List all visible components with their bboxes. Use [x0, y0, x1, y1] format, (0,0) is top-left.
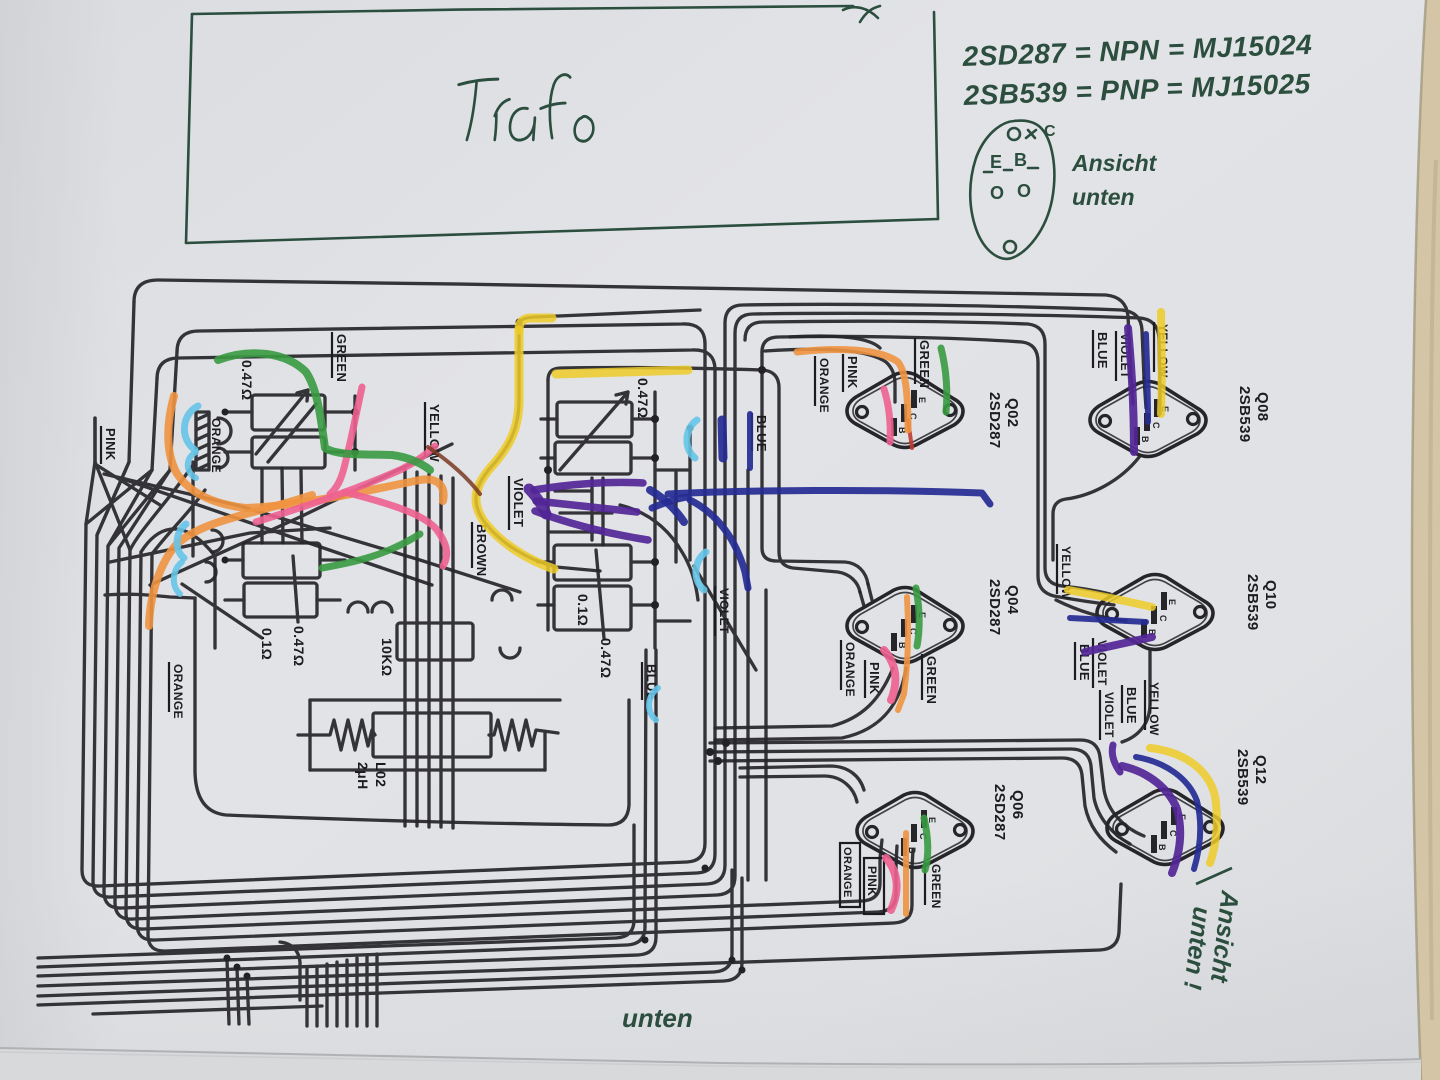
svg-text:C: C [1044, 123, 1056, 140]
wire Q10 third feed [1056, 600, 1126, 621]
svg-text:0.1Ω: 0.1Ω [259, 628, 275, 660]
svg-text:PINK: PINK [845, 356, 860, 389]
svg-text:unten: unten [1072, 184, 1135, 210]
resistor box L4 [244, 583, 317, 617]
svg-text:0.47Ω: 0.47Ω [598, 638, 614, 678]
frame F2 composite: top edge, central vertical, bottom row, left bundle line [82, 324, 705, 886]
Trafo box left edge [186, 14, 192, 243]
Trafo box top edge [192, 6, 853, 14]
marker navy descending [690, 500, 748, 588]
U-loop bumps [348, 602, 368, 612]
wire composite line A to Q08 [104, 304, 1144, 908]
short verticals from rows x227-247 [227, 960, 229, 1024]
Trafo box right edge [934, 12, 938, 219]
resistor box L2 [252, 437, 325, 468]
marker brown diagonal [428, 447, 480, 494]
svg-text:ORANGE: ORANGE [171, 664, 185, 719]
fan diagonals [130, 465, 193, 550]
marker pink PB [345, 492, 447, 566]
junction dots [222, 319, 767, 980]
marker yellow Q10 [1068, 590, 1152, 607]
trim line right bottom [596, 550, 604, 638]
inductor L02 box [373, 713, 491, 757]
wire from PINK label [95, 418, 160, 505]
svg-text:0.47Ω: 0.47Ω [239, 360, 255, 400]
dense verticals bottom center-left [305, 968, 308, 1026]
bottom paper edge [0, 1048, 1421, 1080]
hatched terminal strip [196, 412, 209, 470]
TO-3 sketch top hole [1008, 128, 1020, 140]
TO-3 sketch E B dashes [984, 168, 1038, 172]
marker pink PC [330, 387, 362, 494]
svg-text:VIOLET: VIOLET [1102, 692, 1116, 738]
svg-text:ORANGE: ORANGE [841, 847, 853, 898]
wire horizontal stubs central [555, 489, 592, 492]
svg-text:2SB539: 2SB539 [1234, 749, 1251, 806]
wire Q06 pin verticals [880, 840, 882, 858]
wire Q08 bottom to Q10 link [1053, 456, 1140, 560]
Trafo box hook arrow [843, 6, 880, 22]
transistor Q04 [847, 588, 963, 663]
component boxes and cluster wiring [196, 336, 1160, 868]
marker green long [218, 353, 430, 470]
hand-drawn green pen annotations [186, 6, 1054, 259]
frame F1 outer border top edge [134, 280, 1131, 376]
frame F2 left edge [170, 352, 177, 470]
handwriting equations [961, 29, 1313, 111]
connector bumps printed arcs [218, 418, 231, 444]
svg-text:Q12: Q12 [1252, 755, 1269, 785]
wire top of zigzags [310, 698, 560, 701]
verticals through 10K box and L02 [403, 470, 406, 826]
wire Q02 feed f2 [790, 336, 880, 348]
svg-text:O: O [990, 183, 1004, 203]
wire stub y621 [655, 619, 690, 622]
wire verticals central cluster [590, 478, 593, 540]
marker navy vertical nub [722, 420, 723, 458]
wire Q02 feed f1 [765, 349, 895, 402]
box stubs right cluster [541, 417, 557, 420]
marker yellow S-curve [476, 330, 554, 569]
TO-3 sketch x mark [1026, 130, 1036, 138]
svg-text:2SD287: 2SD287 [986, 579, 1003, 636]
svg-text:unten: unten [622, 1003, 693, 1033]
svg-text:B: B [1014, 150, 1027, 170]
TO-3 sketch pin letters [990, 123, 1056, 203]
resistor box R4 [554, 586, 631, 630]
wire Q04 bottom wires [715, 668, 893, 728]
wire 3-line bundle to Q12 [710, 740, 1144, 836]
printed wire color labels (rotated) [101, 322, 1279, 914]
wire vertical x193 upper [191, 462, 194, 556]
wire central vertical x548 lower [546, 380, 549, 630]
wire Q10 bottom down [1122, 650, 1150, 742]
table edge (beige strip at right) [1412, 0, 1440, 1080]
marker violet V2 [536, 501, 637, 512]
marker pink Q02 [884, 389, 890, 442]
transistor Q08 [1090, 382, 1206, 457]
svg-text:GREEN: GREEN [917, 340, 932, 388]
marker violet hook Q12 [1112, 745, 1120, 772]
wire Q06 feeds [740, 766, 864, 790]
marker green Q06 [924, 818, 928, 870]
boxed label ORANGE Q06 [840, 843, 884, 914]
handwriting Trafo [459, 75, 594, 142]
svg-text:0.47Ω: 0.47Ω [635, 378, 651, 418]
marker violet Q10 [1085, 637, 1152, 652]
svg-text:Q02: Q02 [1004, 398, 1021, 428]
svg-text:GREEN: GREEN [929, 864, 943, 909]
svg-text:GREEN: GREEN [924, 656, 939, 704]
marker navy Q08 [1146, 334, 1148, 422]
wire vertical x656 joining row B3 [38, 650, 656, 976]
transistor Q10 [1097, 575, 1213, 650]
svg-text:Q06: Q06 [1009, 790, 1026, 820]
marker orange Q04 [898, 597, 908, 710]
wire composite line B to Q08 (yellow wire) [115, 313, 1160, 919]
svg-text:PINK: PINK [867, 662, 882, 695]
svg-text:Q10: Q10 [1262, 580, 1279, 610]
svg-text:PINK: PINK [103, 428, 118, 461]
svg-text:2SD287: 2SD287 [991, 784, 1008, 841]
marker navy Q12 [1136, 757, 1200, 869]
colored marker strokes [149, 312, 1217, 914]
row R7 to Q06 [148, 554, 912, 951]
svg-text:VIOLET: VIOLET [717, 588, 731, 634]
marker violet V1 [534, 482, 643, 490]
resistor box R2 [555, 442, 631, 474]
svg-text:Q04: Q04 [1004, 585, 1021, 615]
svg-text:BROWN: BROWN [474, 524, 489, 577]
wire vertical x655 [653, 392, 656, 648]
marker pink Q06 [886, 858, 897, 910]
wire diagonal near VIOLET label [694, 566, 756, 670]
transistor Q02 [847, 373, 963, 448]
row R5 to Q06 [126, 550, 880, 929]
marker yellow horizontal frame [556, 370, 688, 374]
zigzag resistor RZ2 [489, 720, 558, 750]
svg-text:2SB539: 2SB539 [1236, 386, 1253, 443]
marker green Q02 [941, 348, 947, 412]
svg-text:BLUE: BLUE [754, 415, 769, 452]
marker dark red Q02 [908, 420, 912, 448]
crossing diagonals between clusters [104, 474, 520, 592]
row R6 to Q06 [137, 552, 896, 940]
marker yellow Q12 [1150, 748, 1217, 863]
marker pink Q04 [884, 650, 895, 700]
marker navy knot [650, 490, 684, 522]
marker violet V3 [535, 511, 648, 540]
transistor Q12 [1107, 790, 1223, 865]
wire yellow-marked corner [476, 310, 700, 571]
resistor box L1 [252, 395, 325, 430]
Trafo box bottom edge [186, 219, 938, 243]
frame F3 left edge [152, 379, 157, 470]
marker cyan arcs right [687, 420, 697, 458]
svg-text:Ansicht: Ansicht [1071, 150, 1158, 176]
handwriting Ansicht unten! (bottom right, rotated) [1178, 888, 1244, 991]
marker orange O2 [149, 495, 312, 626]
wire vertical x646 joining row B2 [38, 650, 646, 967]
svg-text:PINK: PINK [865, 866, 879, 896]
wire bottom of L02 [310, 768, 545, 771]
zigzag resistor RZ1 [298, 720, 375, 750]
wire horizontal into strip [105, 594, 195, 598]
trim arrow right top [560, 392, 628, 470]
svg-text:10KΩ: 10KΩ [379, 638, 395, 677]
marker navy BLUE wire [747, 414, 753, 468]
svg-text:ORANGE: ORANGE [817, 358, 831, 413]
marker green lower [322, 534, 420, 568]
wire line C down to Q10 [745, 321, 1110, 594]
svg-text:E: E [990, 152, 1002, 172]
resistor box R3 [554, 545, 631, 580]
svg-text:GREEN: GREEN [334, 334, 349, 382]
marker orange Q02 [797, 349, 908, 430]
marker yellow corner top [519, 318, 552, 330]
svg-text:2SD287: 2SD287 [986, 392, 1003, 449]
pen line to Ansicht note [1196, 868, 1232, 884]
TO-3 sketch bottom hole [1004, 241, 1016, 253]
svg-text:VIOLET: VIOLET [511, 478, 526, 527]
marker green Q04 [916, 588, 919, 646]
marker yellow Q08 [1157, 312, 1166, 414]
resistor box L3 [243, 543, 320, 578]
svg-text:BLUE: BLUE [1095, 332, 1110, 369]
svg-text:2μH: 2μH [355, 762, 371, 790]
corner curves into dense verticals [280, 942, 300, 1000]
marker navy Q10 [1070, 618, 1146, 622]
wire vertical channel x215 [213, 556, 216, 648]
TO-3 hand sketch outline [970, 121, 1054, 259]
marker navy long horizontal [668, 490, 990, 504]
frame F1 left edge [129, 302, 134, 462]
marker cyan arcs left [184, 406, 198, 450]
wire verticals between left box pairs [260, 470, 263, 543]
svg-text:YELLOW: YELLOW [1147, 682, 1161, 736]
marker orange Q06 [903, 833, 909, 914]
marker violet Q08 [1128, 328, 1134, 452]
handwriting Ansicht unten (beside sketch) [1071, 150, 1158, 210]
svg-text:L02: L02 [373, 762, 389, 787]
svg-text:ORANGE: ORANGE [209, 418, 223, 473]
wire vertical channel x195 [195, 598, 629, 825]
svg-text:0.47Ω: 0.47Ω [291, 626, 307, 666]
marker violet knot [529, 489, 546, 514]
marker violet Q12 [1122, 766, 1180, 873]
bottom bundle rows B1-B7 [38, 825, 634, 958]
box stubs left cluster [225, 410, 252, 413]
printed schematic: black ink [38, 280, 1160, 1026]
wire S-curve at blue knot [620, 505, 698, 600]
marker pink PA [256, 446, 435, 522]
svg-text:0.1Ω: 0.1Ω [575, 594, 591, 626]
svg-text:ORANGE: ORANGE [843, 642, 857, 697]
svg-text:2SB539: 2SB539 [1244, 574, 1261, 631]
transistor Q06 [857, 793, 973, 868]
wire Q08 pin verticals [1131, 376, 1133, 404]
wire Q02 frame left edge down to Q04 feed [762, 352, 868, 584]
svg-text:BLUE: BLUE [1124, 687, 1139, 724]
trim arrow left top [256, 390, 308, 454]
marker orange O1 [168, 396, 443, 508]
frame F4 inner central [548, 368, 860, 592]
resistor 10K box [397, 623, 473, 660]
svg-text:O: O [1017, 181, 1031, 201]
frame around Q02 [762, 336, 1114, 605]
resistor box R1 [557, 402, 632, 437]
trim line left bottom [293, 556, 298, 622]
wire Q04 pin verticals [868, 584, 872, 600]
frame F3 composite [93, 350, 715, 897]
svg-text:Q08: Q08 [1254, 392, 1271, 422]
wire vertical x690 [688, 428, 691, 560]
